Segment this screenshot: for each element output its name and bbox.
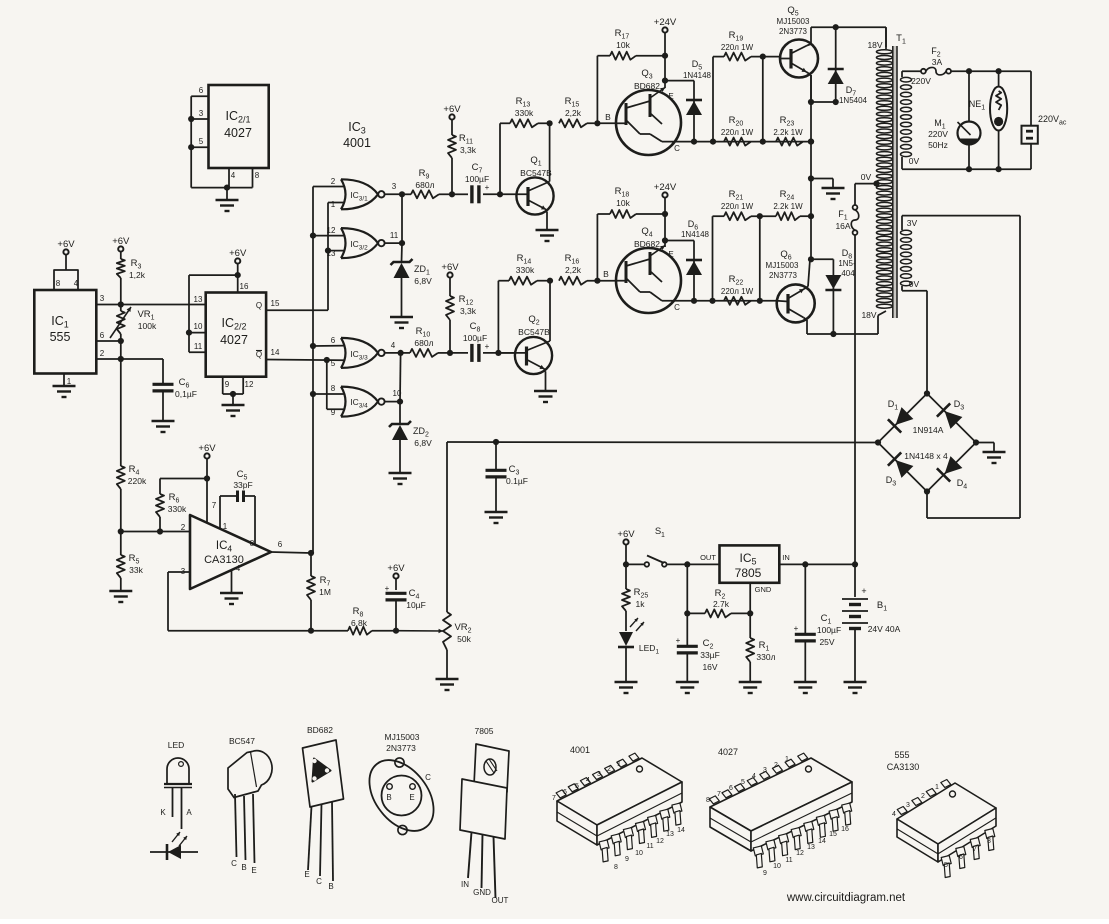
svg-text:12: 12 bbox=[796, 850, 804, 857]
potentiometer VR2 50k bbox=[436, 442, 472, 690]
power terminal +24V (lower) bbox=[654, 182, 677, 247]
svg-text:BC547B: BC547B bbox=[520, 168, 552, 178]
node R8/C4 bbox=[393, 628, 399, 634]
resistor R7 1M bbox=[307, 553, 331, 634]
svg-text:220V: 220V bbox=[911, 76, 931, 86]
diode D7 1N5404 bbox=[808, 27, 868, 105]
IC1 pin 2 wire bbox=[96, 349, 163, 362]
lower collector rail (C line) bbox=[662, 298, 777, 304]
svg-text:6,8V: 6,8V bbox=[414, 276, 432, 286]
svg-text:10k: 10k bbox=[616, 40, 630, 50]
node bridge right bbox=[973, 439, 979, 445]
svg-text:BC547: BC547 bbox=[229, 736, 255, 746]
svg-text:1: 1 bbox=[331, 200, 336, 209]
svg-text:+: + bbox=[485, 183, 490, 192]
symbol LED1 schematic (package row) bbox=[150, 832, 198, 860]
svg-text:4001: 4001 bbox=[343, 136, 371, 150]
svg-text:MJ15003: MJ15003 bbox=[777, 17, 810, 26]
svg-text:1k: 1k bbox=[636, 599, 646, 609]
resistor R3 1.2k bbox=[112, 236, 146, 305]
svg-text:10k: 10k bbox=[616, 198, 630, 208]
svg-text:14: 14 bbox=[677, 827, 685, 834]
power terminal +6V (S1) bbox=[617, 526, 665, 568]
svg-text:12: 12 bbox=[327, 226, 336, 235]
svg-text:16: 16 bbox=[240, 282, 249, 291]
svg-text:3V: 3V bbox=[907, 218, 918, 228]
label CA3130 bbox=[887, 762, 920, 772]
resistor R20 220 1W bbox=[721, 115, 754, 146]
node C7/R13 bbox=[497, 191, 503, 197]
transistor Q4 BD682 darlington bbox=[616, 226, 681, 313]
svg-text:7: 7 bbox=[212, 501, 217, 510]
node R4/R5 bbox=[118, 528, 124, 534]
svg-text:1M: 1M bbox=[319, 587, 331, 597]
wire Q5 collector to transformer top bbox=[811, 24, 886, 47]
svg-text:6.8k: 6.8k bbox=[351, 618, 368, 628]
svg-text:2.7k: 2.7k bbox=[713, 599, 730, 609]
wire to IC4 pin 2 bbox=[121, 528, 190, 534]
diode D4 (bridge bottom-right) bbox=[927, 443, 976, 492]
IC1 pin 3 wire to IC2/2 pin 13 bbox=[96, 294, 205, 305]
svg-text:C: C bbox=[425, 773, 431, 782]
svg-text:5: 5 bbox=[575, 783, 579, 790]
svg-text:404: 404 bbox=[841, 269, 855, 278]
svg-text:10: 10 bbox=[194, 322, 203, 331]
svg-text:11: 11 bbox=[390, 231, 399, 240]
svg-text:4027: 4027 bbox=[220, 333, 248, 347]
svg-text:3: 3 bbox=[199, 109, 204, 118]
IC2/2 pins 9,12 to ground bbox=[222, 377, 254, 416]
svg-text:330k: 330k bbox=[516, 265, 535, 275]
upper collector rail (C line) bbox=[662, 139, 814, 145]
svg-text:3: 3 bbox=[100, 294, 105, 303]
svg-text:B: B bbox=[605, 112, 611, 122]
wire VR1 bottom to R4 bbox=[120, 341, 122, 466]
svg-text:10µF: 10µF bbox=[406, 600, 426, 610]
svg-text:100k: 100k bbox=[138, 321, 157, 331]
node R9/R11 bbox=[449, 191, 455, 197]
svg-text:8: 8 bbox=[706, 797, 710, 804]
potentiometer VR1 100k bbox=[110, 305, 157, 342]
LED LED1 bbox=[615, 611, 660, 693]
svg-text:16A: 16A bbox=[835, 221, 850, 231]
meter M1 220V 50Hz bbox=[928, 68, 980, 169]
package drawing MJ15003 (TO-3) bbox=[356, 732, 446, 843]
svg-text:7805: 7805 bbox=[735, 566, 762, 580]
svg-text:5: 5 bbox=[741, 779, 745, 786]
IC U-IC2/2 4027 box bbox=[206, 293, 266, 377]
power terminal +6V (IC1 pins 8,4) bbox=[54, 239, 79, 290]
package drawing BD682 (TO-126) bbox=[303, 725, 344, 891]
svg-text:+24V: +24V bbox=[654, 17, 677, 28]
IC4 pin 4 ground bbox=[220, 570, 243, 604]
svg-text:1N4148: 1N4148 bbox=[681, 230, 710, 239]
zener diode ZD1 6.8V bbox=[390, 194, 432, 328]
node gate1 output bbox=[399, 191, 405, 197]
svg-text:3,3k: 3,3k bbox=[460, 145, 477, 155]
svg-text:OUT: OUT bbox=[492, 896, 509, 905]
svg-text:4: 4 bbox=[752, 773, 756, 780]
svg-text:14: 14 bbox=[271, 348, 280, 357]
svg-text:5: 5 bbox=[331, 359, 336, 368]
package drawing BC547 (TO-92) bbox=[228, 736, 272, 875]
node bridge left bbox=[875, 439, 881, 445]
svg-text:BD682: BD682 bbox=[634, 81, 660, 91]
svg-text:6: 6 bbox=[729, 785, 733, 792]
wire bridge left to C3/VR2 bbox=[447, 441, 878, 444]
wire C7 junction up to R13 bbox=[499, 123, 501, 194]
svg-text:7: 7 bbox=[552, 795, 556, 802]
svg-text:3,3k: 3,3k bbox=[460, 306, 477, 316]
capacitor C6 0.1uF bbox=[152, 359, 197, 432]
resistor R14 330k bbox=[498, 253, 550, 285]
package drawing 4027 (DIP-16) bbox=[706, 747, 852, 877]
svg-text:16: 16 bbox=[841, 826, 849, 833]
svg-text:220k: 220k bbox=[128, 476, 147, 486]
package drawing LED bbox=[160, 740, 192, 829]
svg-text:2.2k 1W: 2.2k 1W bbox=[773, 128, 803, 137]
IC5 GND pin bbox=[747, 583, 772, 617]
gate IC3/2 (4001 NOR) bbox=[327, 226, 402, 258]
svg-text:1: 1 bbox=[67, 377, 72, 386]
svg-text:Q: Q bbox=[256, 301, 262, 310]
node bridge top bbox=[924, 390, 930, 396]
svg-text:0V: 0V bbox=[909, 156, 920, 166]
svg-text:330k: 330k bbox=[168, 504, 187, 514]
svg-text:13: 13 bbox=[194, 295, 203, 304]
svg-text:OUT: OUT bbox=[700, 553, 716, 562]
svg-text:E: E bbox=[668, 92, 673, 101]
package drawing 4001 (DIP-14) bbox=[552, 745, 685, 871]
svg-text:8: 8 bbox=[331, 384, 336, 393]
svg-text:220л 1W: 220л 1W bbox=[721, 128, 754, 137]
svg-text:3A: 3A bbox=[932, 57, 943, 67]
package drawing 7805 (TO-220) bbox=[460, 726, 509, 905]
svg-text:1N4148: 1N4148 bbox=[683, 71, 712, 80]
wire Q6 collector to transformer bottom bbox=[807, 311, 886, 337]
svg-text:12: 12 bbox=[245, 380, 254, 389]
svg-text:B: B bbox=[328, 882, 333, 891]
svg-text:50k: 50k bbox=[457, 634, 471, 644]
transistor Q5 MJ15003/2N3773 bbox=[777, 5, 818, 102]
svg-text:33µF: 33µF bbox=[700, 650, 720, 660]
svg-text:C: C bbox=[674, 144, 680, 153]
switch S1 bbox=[626, 556, 687, 567]
resistor R15 2.2k bbox=[559, 96, 616, 127]
IC U-IC2/1 4027 box bbox=[209, 85, 269, 168]
capacitor C4 10uF bbox=[385, 563, 426, 631]
svg-text:1: 1 bbox=[935, 784, 939, 791]
svg-text:1: 1 bbox=[785, 756, 789, 763]
resistor R5 33k bbox=[109, 532, 143, 603]
svg-text:2N3773: 2N3773 bbox=[386, 743, 416, 753]
svg-text:12: 12 bbox=[656, 838, 664, 845]
wire R8 to VR2 wiper bbox=[396, 629, 443, 634]
transformer core bbox=[892, 46, 897, 318]
transistor Q6 MJ15003/2N3773 bbox=[766, 249, 815, 334]
transformer secondary 220V winding bbox=[901, 71, 932, 169]
svg-text:6: 6 bbox=[278, 540, 283, 549]
resistor R17 10k bbox=[597, 28, 665, 123]
svg-text:1: 1 bbox=[223, 522, 228, 531]
svg-text:680л: 680л bbox=[415, 180, 434, 190]
node R14/R16/Q2-collector bbox=[547, 278, 553, 284]
svg-text:6: 6 bbox=[331, 336, 336, 345]
mains socket 220Vac bbox=[1022, 71, 1067, 169]
node OUT bbox=[684, 561, 690, 567]
svg-text:8: 8 bbox=[250, 539, 255, 548]
svg-text:5: 5 bbox=[944, 862, 948, 869]
svg-text:6: 6 bbox=[563, 789, 567, 796]
diode D3 (bridge top-right) bbox=[927, 394, 976, 443]
node gate3 output bbox=[398, 350, 404, 356]
svg-text:13: 13 bbox=[666, 831, 674, 838]
svg-text:18V: 18V bbox=[867, 40, 882, 50]
svg-text:B: B bbox=[386, 793, 391, 802]
svg-text:6: 6 bbox=[199, 86, 204, 95]
main emitter bus bbox=[808, 75, 814, 262]
wire C8 junction up to R14 bbox=[497, 281, 499, 353]
resistor R24 2.2k 1W bbox=[773, 189, 811, 220]
svg-text:4: 4 bbox=[586, 777, 590, 784]
svg-text:4: 4 bbox=[391, 341, 396, 350]
svg-text:8: 8 bbox=[255, 171, 260, 180]
capacitor C1 100uF 25V bbox=[794, 564, 841, 693]
IC1 pin 1 ground bbox=[53, 374, 76, 398]
svg-text:1: 1 bbox=[661, 532, 665, 539]
IC2/2 pin 14 Qbar wire to gate inputs 5,9 bbox=[256, 348, 345, 409]
svg-text:B: B bbox=[603, 269, 609, 279]
resistor R13 330k bbox=[500, 96, 550, 127]
gate IC3/3 (4001 NOR) bbox=[331, 336, 401, 368]
node bridge bottom bbox=[924, 488, 930, 494]
node C8/R14 bbox=[495, 350, 501, 356]
svg-text:E: E bbox=[304, 870, 309, 879]
diode D6 1N4148 bbox=[665, 219, 710, 301]
svg-text:0V: 0V bbox=[861, 172, 872, 182]
svg-text:0,1µF: 0,1µF bbox=[175, 389, 197, 399]
svg-text:+: + bbox=[485, 342, 490, 351]
svg-text:4001: 4001 bbox=[570, 745, 590, 755]
resistor R23 2.2k 1W bbox=[773, 115, 803, 146]
svg-text:1N5404: 1N5404 bbox=[839, 96, 868, 105]
resistor R16 2.2k bbox=[559, 253, 616, 285]
svg-text:50Hz: 50Hz bbox=[928, 140, 948, 150]
resistor R11 3.3k bbox=[443, 104, 476, 194]
svg-text:220V: 220V bbox=[928, 129, 948, 139]
bridge right ground bbox=[976, 443, 1006, 464]
svg-text:9: 9 bbox=[331, 408, 336, 417]
neon lamp NE1 bbox=[969, 68, 1007, 169]
diode D1 1N914A (bridge top-left) bbox=[878, 394, 927, 443]
svg-text:10: 10 bbox=[635, 850, 643, 857]
svg-text:LED: LED bbox=[168, 740, 185, 750]
svg-text:E: E bbox=[251, 866, 256, 875]
svg-text:4: 4 bbox=[74, 279, 79, 288]
transistor Q2 BC547B bbox=[498, 281, 557, 402]
svg-text:6: 6 bbox=[959, 854, 963, 861]
svg-text:220л 1W: 220л 1W bbox=[721, 43, 754, 52]
svg-text:1: 1 bbox=[617, 761, 621, 768]
svg-text:0V: 0V bbox=[909, 279, 920, 289]
svg-text:9: 9 bbox=[225, 380, 230, 389]
svg-text:2: 2 bbox=[331, 177, 336, 186]
wire bus op-amp output to gate inputs 2,12,6,8 bbox=[310, 187, 345, 554]
resistor R19 220 1W bbox=[713, 30, 780, 142]
node VR1 top bbox=[118, 301, 124, 307]
gate IC3/2 pin13 stub bbox=[328, 250, 345, 252]
svg-text:7: 7 bbox=[973, 846, 977, 853]
resistor R25 1k bbox=[622, 564, 648, 611]
capacitor C5 33pF feedback bbox=[220, 469, 255, 545]
wire to IC5 OUT bbox=[687, 553, 719, 564]
svg-text:8: 8 bbox=[614, 864, 618, 871]
wire 3V 0V to bridge top bbox=[902, 291, 927, 394]
resistor R21 220 1W bbox=[713, 189, 777, 301]
svg-text:C: C bbox=[316, 877, 322, 886]
svg-text:4: 4 bbox=[231, 171, 236, 180]
svg-text:GND: GND bbox=[473, 888, 491, 897]
svg-text:11: 11 bbox=[646, 843, 653, 850]
svg-text:+: + bbox=[676, 636, 681, 645]
svg-text:IN: IN bbox=[782, 553, 790, 562]
svg-text:Q: Q bbox=[256, 350, 262, 359]
IC2/2 pin 16 +6V bbox=[229, 248, 249, 293]
svg-text:0.1µF: 0.1µF bbox=[506, 476, 528, 486]
transformer secondary 3V winding bbox=[901, 216, 920, 291]
IC2/2 pins 10,11 bracket to +6V bbox=[186, 275, 238, 352]
svg-text:4027: 4027 bbox=[718, 747, 738, 757]
svg-text:+6V: +6V bbox=[112, 236, 130, 247]
resistor R4 220k bbox=[117, 464, 147, 532]
svg-text:E: E bbox=[409, 793, 414, 802]
wire 3V winding to bridge (right loop) bbox=[902, 216, 1020, 518]
IC2/1 pins 4,8 to ground bbox=[191, 168, 260, 211]
svg-text:2N3773: 2N3773 bbox=[769, 271, 798, 280]
svg-text:2: 2 bbox=[774, 762, 778, 769]
capacitor C3 0.1uF bbox=[485, 439, 528, 523]
svg-text:13: 13 bbox=[327, 249, 336, 258]
svg-text:+6V: +6V bbox=[617, 529, 635, 540]
svg-text:220л 1W: 220л 1W bbox=[721, 202, 754, 211]
svg-text:3: 3 bbox=[763, 767, 767, 774]
transistor Q3 BD682 darlington bbox=[616, 68, 681, 155]
AC bottom rail bbox=[902, 166, 1031, 172]
svg-text:18V: 18V bbox=[861, 310, 876, 320]
svg-text:15: 15 bbox=[829, 831, 837, 838]
svg-text:14: 14 bbox=[818, 838, 826, 845]
svg-text:4027: 4027 bbox=[224, 126, 252, 140]
power terminal +24V (upper) bbox=[654, 17, 677, 88]
zener diode ZD2 6.8V bbox=[389, 353, 433, 484]
gate IC3/1 (4001 NOR) bbox=[331, 177, 402, 209]
svg-text:CA3130: CA3130 bbox=[887, 762, 920, 772]
capacitor C7 100uF bbox=[452, 162, 500, 203]
svg-text:100µF: 100µF bbox=[817, 625, 841, 635]
svg-text:9: 9 bbox=[625, 856, 629, 863]
svg-text:7805: 7805 bbox=[475, 726, 494, 736]
svg-text:6,8V: 6,8V bbox=[414, 438, 432, 448]
svg-text:GND: GND bbox=[755, 585, 772, 594]
svg-text:3: 3 bbox=[906, 802, 910, 809]
IC U-IC5 7805 box bbox=[720, 545, 780, 582]
svg-text:+24V: +24V bbox=[654, 182, 677, 193]
svg-text:13: 13 bbox=[807, 844, 815, 851]
resistor R10 680 bbox=[401, 326, 450, 357]
resistor R9 680 bbox=[402, 168, 452, 198]
svg-text:+6V: +6V bbox=[198, 443, 216, 454]
bridge labels bbox=[904, 425, 948, 461]
svg-text:K: K bbox=[160, 808, 166, 817]
resistor R1 330 bbox=[739, 613, 776, 693]
svg-text:8: 8 bbox=[987, 838, 991, 845]
node R10/R12 bbox=[447, 350, 453, 356]
svg-text:24V 40A: 24V 40A bbox=[868, 624, 901, 634]
svg-text:2.2k 1W: 2.2k 1W bbox=[773, 202, 803, 211]
IC4 output wire bbox=[271, 550, 314, 556]
svg-text:4: 4 bbox=[236, 564, 241, 573]
label IC3 4001 bbox=[343, 120, 371, 150]
resistor R22 220 1W bbox=[721, 274, 754, 305]
svg-text:4: 4 bbox=[892, 811, 896, 818]
svg-text:2,2k: 2,2k bbox=[565, 265, 582, 275]
svg-text:6: 6 bbox=[100, 331, 105, 340]
resistor R2 2.7k bbox=[684, 588, 750, 617]
IC1 pin 6 wire bbox=[96, 331, 124, 344]
diode D5 1N4148 bbox=[665, 59, 712, 142]
resistor R8 6.8k bbox=[311, 606, 396, 635]
svg-text:+6V: +6V bbox=[57, 239, 75, 250]
node gate4 output bbox=[397, 399, 403, 405]
svg-text:330k: 330k bbox=[515, 108, 534, 118]
svg-text:2N3773: 2N3773 bbox=[779, 27, 808, 36]
bus ground bbox=[811, 179, 845, 200]
svg-text:555: 555 bbox=[894, 750, 909, 760]
svg-text:16V: 16V bbox=[702, 662, 717, 672]
svg-text:+: + bbox=[861, 586, 866, 596]
svg-text:5: 5 bbox=[199, 137, 204, 146]
svg-text:8: 8 bbox=[56, 279, 61, 288]
capacitor C8 100uF bbox=[450, 321, 515, 362]
svg-text:+6V: +6V bbox=[441, 262, 459, 273]
svg-text:E: E bbox=[668, 250, 673, 259]
svg-text:www.circuitdiagram.net: www.circuitdiagram.net bbox=[786, 892, 906, 904]
IC U-IC1 555 box bbox=[34, 290, 96, 374]
svg-text:1N4148 x 4: 1N4148 x 4 bbox=[904, 451, 948, 461]
svg-text:15: 15 bbox=[271, 299, 280, 308]
diode D3 (bridge bottom-left) bbox=[878, 443, 927, 492]
resistor R18 10k bbox=[597, 186, 665, 281]
svg-text:2: 2 bbox=[607, 766, 611, 773]
svg-text:220л 1W: 220л 1W bbox=[721, 287, 754, 296]
svg-text:BC547B: BC547B bbox=[518, 327, 550, 337]
svg-text:33k: 33k bbox=[129, 565, 143, 575]
svg-text:1,2k: 1,2k bbox=[129, 270, 146, 280]
diode D8 1N5404 bbox=[810, 248, 856, 334]
svg-text:2,2k: 2,2k bbox=[565, 108, 582, 118]
svg-text:+: + bbox=[385, 584, 390, 593]
resistor R6 330k bbox=[156, 479, 187, 532]
svg-text:2: 2 bbox=[100, 349, 105, 358]
capacitor C2 33uF 16V bbox=[676, 564, 720, 693]
svg-text:25V: 25V bbox=[819, 637, 834, 647]
svg-text:555: 555 bbox=[50, 330, 71, 344]
svg-text:2: 2 bbox=[921, 793, 925, 800]
resistor R12 3.3k bbox=[441, 262, 476, 353]
svg-text:BD682: BD682 bbox=[307, 725, 333, 735]
wire IC5 IN to battery bbox=[779, 553, 858, 568]
battery B1 24V 40A bbox=[842, 564, 901, 693]
